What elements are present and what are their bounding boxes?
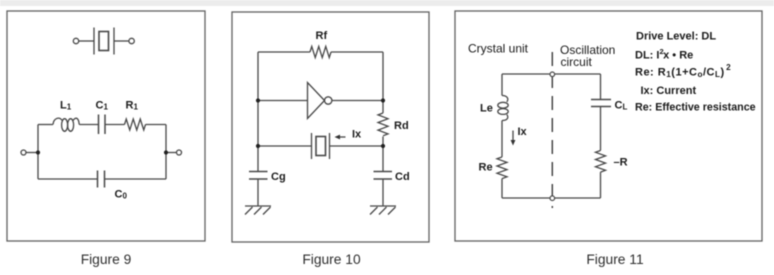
inverter U1 xyxy=(308,83,332,119)
svg-text:DL: I2x • Re: DL: I2x • Re xyxy=(635,47,693,62)
dashed boundary line xyxy=(551,52,553,208)
wire left vertical xyxy=(257,52,259,172)
capacitor Cg xyxy=(249,172,268,180)
note drive level formulas xyxy=(635,31,756,114)
junction node top-right xyxy=(381,98,385,102)
svg-text:Ix: Ix xyxy=(518,126,528,138)
inverter input wire xyxy=(258,100,308,102)
current arrow Ix xyxy=(335,135,346,140)
svg-text:Cd: Cd xyxy=(395,171,410,183)
node top (open) xyxy=(550,72,555,77)
wire right vertical middle xyxy=(382,137,384,172)
svg-text:–R: –R xyxy=(614,157,628,169)
wire left vertical middle xyxy=(501,121,503,158)
capacitor CL xyxy=(591,100,611,107)
crystal symbol (two-terminal quartz unit) xyxy=(73,28,134,55)
wire top branch xyxy=(38,124,53,126)
wire Cd to ground xyxy=(382,179,384,206)
svg-text:Rf: Rf xyxy=(316,30,328,42)
wire left vertical xyxy=(37,125,39,180)
inductor L1 xyxy=(53,118,99,131)
inverter output wire xyxy=(332,100,383,102)
wire top left xyxy=(258,51,310,53)
crystal wire left xyxy=(258,145,312,147)
wire right vertical upper xyxy=(600,74,602,100)
svg-text:Figure 11: Figure 11 xyxy=(586,252,643,267)
svg-text:Rd: Rd xyxy=(394,120,409,132)
crystal X1 xyxy=(312,133,330,159)
svg-text:Drive Level: DL: Drive Level: DL xyxy=(636,31,716,43)
svg-text:Ix: Current: Ix: Current xyxy=(641,85,697,97)
ground left xyxy=(245,206,271,215)
junction node top-left xyxy=(256,98,260,102)
wire right vertical middle xyxy=(600,107,602,151)
wire top right xyxy=(146,124,167,126)
wire top right xyxy=(331,51,383,53)
wire right vertical xyxy=(165,125,167,180)
capacitor C1 xyxy=(99,115,106,135)
junction node bottom-right xyxy=(381,144,385,148)
junction node bottom-left xyxy=(256,144,260,148)
wire to R1 xyxy=(105,124,125,126)
wire bottom xyxy=(502,197,601,199)
resistor Rd xyxy=(378,113,388,136)
svg-text:Ix: Ix xyxy=(352,129,362,141)
right terminal xyxy=(166,150,182,155)
wire bottom right xyxy=(105,178,167,180)
current arrow Ix (fig11) xyxy=(511,131,516,146)
svg-text:circuit: circuit xyxy=(561,55,593,69)
capacitor Cd xyxy=(374,172,393,180)
wire left vertical upper xyxy=(501,74,503,96)
left terminal xyxy=(21,150,38,155)
node bottom (open) xyxy=(550,196,555,201)
wire Cg to ground xyxy=(257,179,259,206)
wire left vertical lower xyxy=(501,179,503,198)
wire top xyxy=(502,73,601,75)
svg-text:Re: Re xyxy=(479,162,493,174)
svg-text:Cg: Cg xyxy=(271,171,286,183)
svg-text:Figure 9: Figure 9 xyxy=(81,252,132,267)
resistor Re xyxy=(497,157,507,179)
svg-text:Le: Le xyxy=(480,103,493,115)
wire right vertical upper xyxy=(382,52,384,113)
crystal wire right xyxy=(330,145,384,147)
resistor -R xyxy=(596,151,606,173)
junction node left xyxy=(36,150,40,154)
wire bottom branch xyxy=(38,178,98,180)
junction node right xyxy=(164,150,168,154)
svg-text:Figure 10: Figure 10 xyxy=(302,252,361,267)
wire right vertical lower xyxy=(600,172,602,198)
resistor R1 xyxy=(125,119,146,130)
resistor Rf xyxy=(310,46,331,57)
svg-text:Re: Effective resistance: Re: Effective resistance xyxy=(635,102,756,114)
ground right xyxy=(370,206,396,215)
capacitor C0 xyxy=(98,171,105,188)
svg-text:Crystal unit: Crystal unit xyxy=(468,42,529,56)
inductor Le xyxy=(498,96,508,121)
